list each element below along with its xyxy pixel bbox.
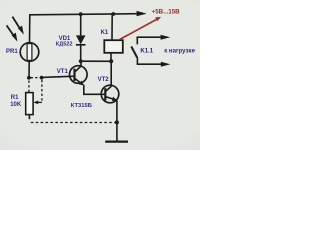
- relay contact K1.1 bottom terminal: [137, 57, 162, 64]
- svg-text:10K: 10K: [10, 102, 22, 108]
- wire: base line to VT1: [42, 76, 75, 77]
- transistor VT1: [70, 66, 88, 84]
- wire: VT1 emitter down then right to VT2 base: [84, 85, 105, 95]
- diode VD1: [80, 14, 82, 35]
- svg-text:K1.1: K1.1: [140, 48, 153, 54]
- svg-text:КТ315Б: КТ315Б: [71, 103, 92, 109]
- svg-text:КД522: КД522: [56, 41, 73, 47]
- wire: dashed R1 top lead: [28, 81, 30, 93]
- relay coil K1: [104, 40, 123, 53]
- node: divider junction dot: [27, 76, 31, 80]
- svg-text:VT1: VT1: [57, 69, 69, 75]
- svg-text:R1: R1: [11, 95, 19, 101]
- wire: dashed bottom return: [31, 122, 116, 124]
- wire: PR1 bottom to divider node: [28, 61, 30, 78]
- wire: VT2 emitter down to ground: [116, 100, 118, 141]
- light arrow 2: [7, 25, 14, 36]
- node: wiper-link dot: [40, 76, 44, 80]
- node: emitter/return junction dot: [115, 120, 119, 124]
- svg-text:+5В...15В: +5В...15В: [152, 9, 181, 16]
- wire: dashed drop to wiper arrow: [41, 80, 43, 103]
- wire: VT2 collector up: [110, 61, 112, 86]
- node: rail dot at relay lead: [111, 12, 115, 16]
- relay contact K1.1 top terminal: [137, 37, 162, 44]
- red supply arrow: [120, 19, 157, 39]
- contact blade: [131, 47, 137, 58]
- node: relay-side dot: [109, 59, 113, 63]
- light arrow 1: [12, 17, 20, 29]
- wire: collector node line: [81, 60, 112, 62]
- ground bar: [105, 141, 128, 143]
- photoresistor PR1: [20, 43, 39, 62]
- wire: VT1 collector up to node: [80, 61, 82, 66]
- wire: dashed link to wiper node: [31, 77, 42, 79]
- wire: relay bottom lead: [110, 53, 112, 62]
- svg-text:к нагрузке: к нагрузке: [164, 47, 195, 54]
- resistor R1: [26, 93, 33, 115]
- svg-text:PR1: PR1: [6, 49, 18, 55]
- wire: R1 bottom stub: [28, 115, 30, 120]
- svg-text:K1: K1: [101, 30, 109, 36]
- node: collector node dot: [79, 59, 83, 63]
- supply arrowhead: [137, 11, 147, 16]
- wire: +V top rail: [30, 14, 138, 15]
- wiper arrow of R1: [37, 101, 42, 103]
- wire: left drop to PR1: [29, 14, 31, 43]
- wire: relay top lead from rail: [111, 14, 113, 40]
- transistor VT2: [101, 85, 119, 103]
- svg-text:VT2: VT2: [98, 77, 110, 83]
